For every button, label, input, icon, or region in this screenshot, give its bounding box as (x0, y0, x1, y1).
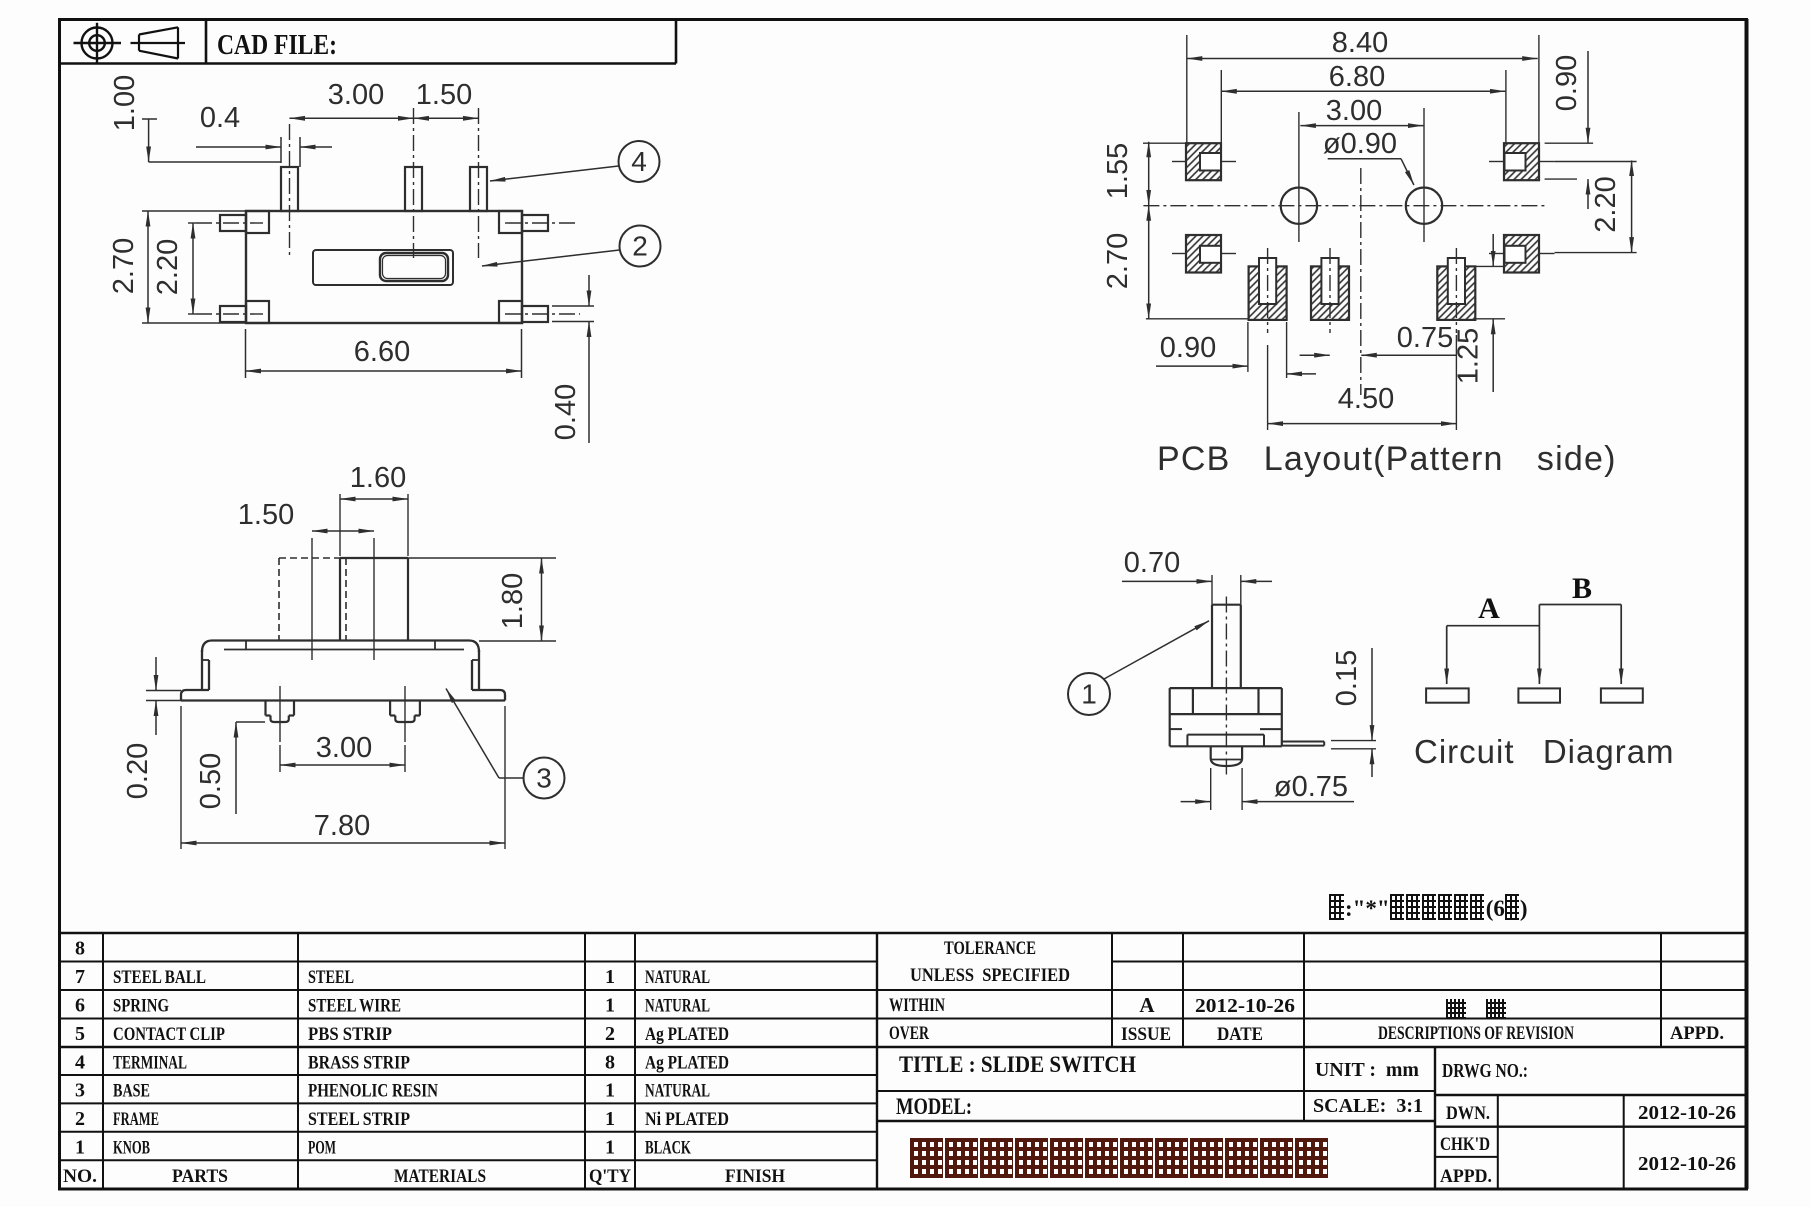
pcb horizontal centerline (1143, 205, 1545, 207)
svg-text:3.00: 3.00 (328, 79, 384, 111)
top view - slider knob (380, 253, 448, 281)
side view - shaft centerline (1225, 597, 1227, 778)
svg-text:TITLE : SLIDE SWITCH: TITLE : SLIDE SWITCH (899, 1052, 1136, 1077)
svg-text:1: 1 (605, 966, 615, 988)
dimension 2.20 right (pad row pitch) (1555, 161, 1637, 253)
tolerance block text (889, 938, 1070, 1044)
dimension 8.40 (pad row outer span) (1187, 27, 1539, 143)
svg-text:0.70: 0.70 (1124, 547, 1180, 579)
svg-text:PHENOLIC RESIN: PHENOLIC RESIN (308, 1081, 438, 1102)
svg-text:Ag PLATED: Ag PLATED (645, 1024, 729, 1045)
svg-text:SCALE: 3:1: SCALE: 3:1 (1313, 1095, 1423, 1117)
top view - corner box top-right (499, 211, 522, 233)
svg-text:0.20: 0.20 (122, 743, 154, 799)
top view - side tab top-left (220, 215, 246, 231)
svg-text:4: 4 (631, 146, 647, 177)
svg-text:2.70: 2.70 (108, 238, 140, 294)
svg-text:NATURAL: NATURAL (645, 996, 710, 1017)
svg-text:2.70: 2.70 (1102, 233, 1134, 289)
svg-text:5: 5 (75, 1023, 85, 1045)
dimension 3.00 (hole pitch) (1300, 95, 1423, 127)
svg-text:1: 1 (75, 1137, 85, 1159)
svg-text:1.25: 1.25 (1453, 328, 1485, 384)
svg-text:4.50: 4.50 (1338, 383, 1394, 415)
dimension 1.60 (shaft width) (340, 462, 408, 556)
svg-text:UNIT : mm: UNIT : mm (1315, 1059, 1419, 1081)
svg-text:7.80: 7.80 (314, 810, 370, 842)
top view - corner box top-left (246, 211, 269, 233)
svg-text:DESCRIPTIONS OF REVISION: DESCRIPTIONS OF REVISION (1378, 1023, 1574, 1044)
top view - terminal pin top-1 (281, 167, 298, 211)
svg-text:B: B (1572, 572, 1592, 605)
dimension 0.20 (foot thickness) (122, 657, 181, 799)
svg-text:1.80: 1.80 (497, 573, 529, 629)
svg-text:2: 2 (75, 1108, 85, 1130)
svg-text:ø0.90: ø0.90 (1323, 128, 1397, 160)
svg-text:STEEL BALL: STEEL BALL (113, 967, 206, 988)
top view - pin 2 centerline (413, 108, 415, 258)
parts list header row (63, 1166, 785, 1187)
svg-text:NO.: NO. (63, 1166, 97, 1187)
svg-text:3.00: 3.00 (316, 732, 372, 764)
svg-text:BLACK: BLACK (645, 1138, 691, 1159)
svg-text:4: 4 (75, 1052, 85, 1074)
dimension 1.80 (shaft height) (408, 558, 556, 641)
svg-text:UNLESS SPECIFIED: UNLESS SPECIFIED (910, 965, 1070, 986)
top view - corner box bottom-left (246, 301, 269, 323)
pcb corner pad centerline stubs (1172, 162, 1555, 254)
callout balloon 1 - knob (1068, 621, 1209, 715)
circuit diagram - terminal pad right (1601, 688, 1643, 702)
svg-text:A: A (1139, 993, 1155, 1017)
dimension 0.70 (shaft thickness) (1122, 547, 1272, 605)
dimension 0.15 (terminal thickness) (1331, 648, 1376, 777)
svg-text:WITHIN: WITHIN (889, 995, 945, 1016)
svg-text:0.90: 0.90 (1551, 55, 1583, 111)
front view - frame body outline (181, 641, 505, 701)
svg-text:1: 1 (605, 995, 615, 1017)
front view - knob travel reference lines (312, 538, 374, 660)
front view - solder terminal right (390, 701, 420, 723)
svg-text:2: 2 (605, 1023, 615, 1045)
svg-text:1.50: 1.50 (238, 499, 294, 531)
svg-text:OVER: OVER (889, 1023, 929, 1044)
svg-text:BRASS STRIP: BRASS STRIP (308, 1053, 410, 1074)
callout balloon 3 - base (446, 689, 565, 799)
svg-text:7: 7 (75, 966, 85, 988)
svg-text:0.90: 0.90 (1160, 332, 1216, 364)
dimension 1.00 (pin height) (109, 75, 281, 162)
svg-text:ISSUE: ISSUE (1121, 1024, 1171, 1045)
pcb pad top-left (hatched) (1186, 143, 1221, 180)
svg-text:NATURAL: NATURAL (645, 967, 710, 988)
svg-text:PCB Layout(Pattern side): PCB Layout(Pattern side) (1157, 440, 1617, 478)
pcb tooling hole right (dia 0.90) (1406, 108, 1442, 242)
top view - tab centerline top-left (196, 222, 263, 224)
svg-text:APPD.: APPD. (1440, 1166, 1492, 1187)
svg-text:A: A (1478, 592, 1500, 625)
svg-text:MODEL:: MODEL: (896, 1094, 972, 1119)
company name: Zhejiang Hongsui Precision Electronics Co Ltd (Chinese, dark red) (910, 1138, 1330, 1183)
front view - terminal centerlines (280, 686, 405, 742)
svg-text:1.60: 1.60 (350, 462, 406, 494)
dimension 0.90 bottom (pad width) (1156, 322, 1330, 378)
title block lines (877, 933, 1748, 1189)
pcb terminal pad middle centerline (1329, 248, 1331, 333)
svg-text:8.40: 8.40 (1332, 27, 1388, 59)
front view - knob hidden position (dashed) (279, 558, 346, 641)
top view - side tab top-right (522, 215, 548, 231)
svg-text:STEEL STRIP: STEEL STRIP (308, 1109, 410, 1130)
dimension dia 0.75 (bottom post) (1181, 768, 1354, 810)
circuit diagram - terminal pad middle (1518, 688, 1560, 702)
dimension 0.75 (pad offset) (1361, 322, 1456, 355)
svg-text:BASE: BASE (113, 1081, 150, 1102)
svg-text:PARTS: PARTS (172, 1166, 228, 1187)
svg-text:NATURAL: NATURAL (645, 1081, 710, 1102)
top view - pin 1 centerline (289, 124, 291, 258)
svg-text:1: 1 (605, 1108, 615, 1130)
svg-text:0.75: 0.75 (1397, 322, 1453, 354)
svg-text:2.20: 2.20 (152, 239, 184, 295)
svg-text:POM: POM (308, 1138, 336, 1159)
svg-text:1.50: 1.50 (416, 79, 472, 111)
parts list table lines (58, 933, 1748, 1189)
svg-text:FRAME: FRAME (113, 1109, 159, 1130)
top view - tab centerline bottom-right (505, 313, 580, 315)
pcb terminal pad left (hatched) (1249, 258, 1287, 320)
svg-text:3.00: 3.00 (1326, 95, 1382, 127)
side view - body outline (1170, 688, 1282, 746)
dimension 1.50 (pin pitch) (414, 79, 479, 118)
top view - terminal pin top-3 (470, 167, 487, 211)
svg-text:1: 1 (605, 1080, 615, 1102)
top view - side tab bottom-right (522, 306, 548, 322)
top view - tab centerline bottom-left (196, 313, 263, 315)
dimension 0.4 (pin width) (196, 102, 332, 167)
svg-text:3: 3 (75, 1080, 85, 1102)
signature block text (1440, 1102, 1736, 1187)
svg-text:CAD FILE:: CAD FILE: (217, 30, 337, 61)
svg-text:ø0.75: ø0.75 (1274, 771, 1348, 803)
dimension 1.25 (pad height bottom) (1453, 234, 1505, 392)
dimension dia 0.90 hole callout (1323, 128, 1414, 185)
dimension 1.50 (knob travel) (238, 499, 374, 531)
svg-text:1: 1 (605, 1137, 615, 1159)
pcb terminal pad right (hatched) (1437, 258, 1475, 320)
pcb pad bottom-left (hatched) (1186, 235, 1221, 273)
pcb pad top-right (hatched) (1504, 143, 1539, 180)
pcb terminal pad middle (hatched) (1311, 258, 1349, 320)
svg-text:Ni PLATED: Ni PLATED (645, 1109, 729, 1130)
svg-text:APPD.: APPD. (1670, 1023, 1724, 1044)
dimension 4.50 (terminal pad span) (1268, 335, 1457, 430)
callout balloon 2 - frame (482, 226, 661, 267)
pcb vertical centerline (1360, 168, 1362, 395)
pcb terminal pad left centerline (1267, 248, 1269, 333)
svg-text:KNOB: KNOB (113, 1138, 150, 1159)
svg-text:DWN.: DWN. (1446, 1103, 1490, 1124)
svg-text:1: 1 (1081, 679, 1097, 710)
circuit diagram - contact B wire (1539, 605, 1621, 685)
dimension 0.90 right (pad height) (1545, 51, 1594, 209)
circuit diagram - contact A wire (1447, 626, 1539, 684)
svg-text:FINISH: FINISH (725, 1166, 785, 1187)
CAD FILE title bar (58, 20, 676, 64)
svg-text:TERMINAL: TERMINAL (113, 1053, 187, 1074)
revision row text (1121, 993, 1724, 1045)
pcb terminal pad right centerline (1455, 248, 1457, 333)
dimension 2.70 (axis to pad bottom) (1102, 205, 1249, 318)
svg-text:3: 3 (536, 763, 552, 794)
svg-text:8: 8 (605, 1052, 615, 1074)
dimension 1.55 (axis to pad top) (1102, 142, 1186, 206)
parts list part names (113, 966, 729, 1159)
side view - shaft (1212, 605, 1241, 688)
svg-text:0.15: 0.15 (1331, 650, 1363, 706)
svg-text:2.20: 2.20 (1590, 176, 1622, 232)
top view - pin 3 centerline (478, 108, 480, 258)
svg-text:TOLERANCE: TOLERANCE (944, 938, 1036, 959)
svg-text:CHK'D: CHK'D (1440, 1134, 1490, 1155)
top view - corner box bottom-right (499, 301, 522, 323)
title and model text (896, 1052, 1528, 1119)
svg-text:DRWG NO.:: DRWG NO.: (1442, 1060, 1528, 1082)
top view - tab centerline top-right (505, 222, 576, 224)
svg-text:CONTACT CLIP: CONTACT CLIP (113, 1024, 225, 1045)
front view - solder terminal left (266, 701, 295, 723)
svg-text:6.80: 6.80 (1329, 61, 1385, 93)
third-angle projection symbol - target circle (74, 23, 122, 63)
third-angle projection symbol - cone (131, 27, 186, 58)
svg-text:0.40: 0.40 (550, 384, 582, 440)
svg-text:2012-10-26: 2012-10-26 (1638, 1153, 1736, 1175)
dimension 3.00 (terminal pitch front) (280, 732, 405, 772)
svg-text:Q'TY: Q'TY (589, 1166, 631, 1187)
front view - knob shaft solid outline (340, 558, 408, 641)
side view - terminal tab (1282, 742, 1324, 746)
svg-text:PBS STRIP: PBS STRIP (308, 1024, 392, 1045)
pcb tooling hole left (dia 0.90) (1281, 112, 1317, 242)
revision description: first edition (Chinese) (1446, 999, 1526, 1024)
svg-text:DATE: DATE (1217, 1024, 1263, 1045)
svg-text:6: 6 (75, 995, 85, 1017)
dimension 2.70 (body width) (108, 211, 246, 323)
svg-text:0.50: 0.50 (195, 753, 227, 809)
svg-text:STEEL WIRE: STEEL WIRE (308, 996, 401, 1017)
dimension 3.00 (pin pitch) (290, 79, 414, 118)
dimension 7.80 (overall width) (181, 706, 505, 849)
svg-text:1.55: 1.55 (1102, 143, 1134, 199)
dimension 0.50 (terminal protrusion) (195, 722, 265, 814)
svg-text:1.00: 1.00 (109, 75, 141, 131)
svg-text:Circuit Diagram: Circuit Diagram (1414, 733, 1675, 770)
note: key dimensions (Chinese) (1329, 894, 1528, 922)
svg-text:2: 2 (632, 231, 648, 262)
top view - terminal pin top-2 (405, 167, 422, 211)
dimension 6.60 (body length) (246, 329, 522, 378)
parts list row numbers (75, 938, 85, 1159)
svg-text:6.60: 6.60 (354, 336, 410, 368)
svg-text:STEEL: STEEL (308, 967, 354, 988)
callout balloon 4 - terminal (490, 141, 660, 182)
dimension 6.80 (pad row inner span) (1221, 61, 1506, 143)
svg-text:SPRING: SPRING (113, 996, 169, 1017)
dimension 0.40 (tab height) (550, 275, 594, 443)
circuit diagram - terminal pad left (1426, 688, 1469, 702)
top view - switch body outline (246, 211, 522, 323)
svg-text:2012-10-26: 2012-10-26 (1195, 995, 1295, 1017)
svg-text:MATERIALS: MATERIALS (394, 1166, 486, 1187)
svg-text:2012-10-26: 2012-10-26 (1638, 1102, 1736, 1124)
svg-text:Ag PLATED: Ag PLATED (645, 1053, 729, 1074)
dimension 2.20 (tab span) (152, 223, 196, 314)
top view - side tab bottom-left (220, 306, 246, 322)
svg-text:8: 8 (75, 938, 85, 960)
pcb pad bottom-right (hatched) (1504, 235, 1539, 273)
top view - slider window opening (313, 250, 453, 285)
side view - bottom post (1211, 746, 1242, 766)
svg-text:0.4: 0.4 (200, 102, 240, 134)
